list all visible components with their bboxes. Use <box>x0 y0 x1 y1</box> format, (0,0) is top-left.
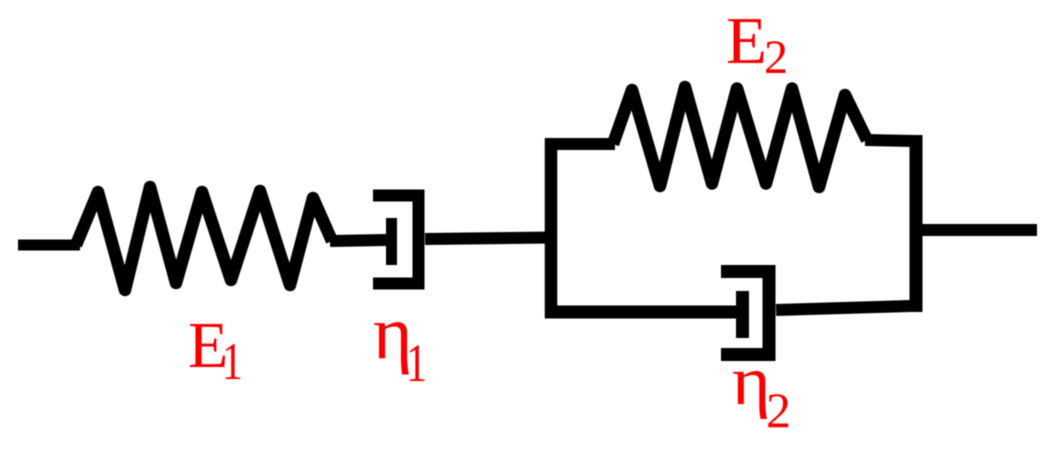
spring E2 <box>613 87 867 187</box>
node: Kelvin box left vertical <box>545 138 558 318</box>
label eta1 <box>373 291 413 375</box>
label eta1 subscript 1 <box>406 334 427 393</box>
wire bottom branch left <box>545 306 736 319</box>
dashpot eta1 cylinder <box>373 196 419 284</box>
label E1 subscript 1 <box>222 333 243 391</box>
svg-text:1: 1 <box>406 334 427 393</box>
wire bottom branch right <box>776 306 910 310</box>
dashpot eta2 piston <box>736 291 749 338</box>
wire top branch left <box>545 138 615 150</box>
wire top branch right <box>865 140 916 141</box>
label eta2 <box>732 342 771 420</box>
svg-text:η: η <box>732 342 771 420</box>
wire output right <box>922 224 1037 236</box>
wire spring E1 to dashpot piston <box>330 240 386 241</box>
svg-text:2: 2 <box>766 382 791 438</box>
wire dashpot eta1 to Kelvin box <box>425 238 551 240</box>
svg-text:E: E <box>726 4 767 78</box>
wire input left <box>18 240 80 251</box>
svg-text:2: 2 <box>764 31 788 84</box>
dashpot eta1 piston <box>386 218 397 265</box>
dashpot eta2 cylinder <box>721 272 769 355</box>
svg-text:1: 1 <box>222 333 243 391</box>
spring E1 <box>76 187 332 290</box>
node: Kelvin box right vertical <box>910 135 923 312</box>
